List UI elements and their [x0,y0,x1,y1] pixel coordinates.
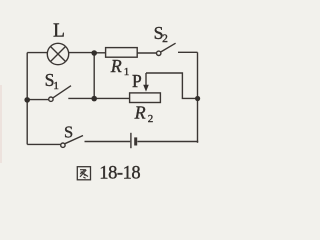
slider arrowhead [143,85,149,92]
caption hanzi TU (drawn) [77,167,90,180]
wire: node A down to middle row [93,53,95,99]
switch S1 blade [53,86,71,98]
battery long plate [130,133,132,148]
switch S blade [65,136,83,144]
svg-text:2: 2 [162,33,168,45]
battery short plate [134,137,137,145]
svg-text:R: R [134,102,146,122]
wire: S to battery [85,141,131,143]
wire: lamp to node A [69,52,94,54]
paper background [0,0,202,189]
middle row right junction dot [91,96,97,102]
svg-text:R: R [110,56,122,76]
svg-text:18-18: 18-18 [99,163,140,183]
switch S pivot circle [61,143,65,147]
svg-text:L: L [53,21,65,42]
wire: left side to S1 [27,99,49,101]
wire: slider P loop (top of arrow to right side) [146,73,198,98]
wire: middle row junction to R2 [94,97,129,99]
wire: S2 to top-right corner [178,51,198,53]
switch S1 pivot circle [49,97,53,101]
svg-text:2: 2 [148,113,154,125]
svg-text:1: 1 [53,80,59,92]
wire: node A to R1 [94,52,106,54]
left edge pink scan smear [0,85,2,163]
wire: top-left horizontal to lamp [27,52,47,54]
switch S2 pivot circle [157,51,161,55]
lamp L cross [51,47,66,62]
wire: S1 to middle junction [68,97,94,99]
right side junction dot [195,96,200,101]
svg-text:P: P [132,71,142,91]
wire: right vertical side [197,52,199,143]
wire: battery to bottom-right corner [137,141,198,143]
middle row left junction dot [24,97,30,103]
wire: R1 to S2 [137,52,156,54]
resistor R1 box [106,48,138,58]
switch S2 blade [161,43,176,52]
rheostat R2 box [130,93,161,103]
wire: left vertical side [26,53,28,145]
lamp L circle [47,43,68,64]
svg-text:S: S [64,122,73,141]
svg-text:1: 1 [124,66,130,78]
slider arrow shaft [145,73,147,86]
wire: bottom-left to switch S [27,143,61,145]
node A junction dot [91,50,97,56]
